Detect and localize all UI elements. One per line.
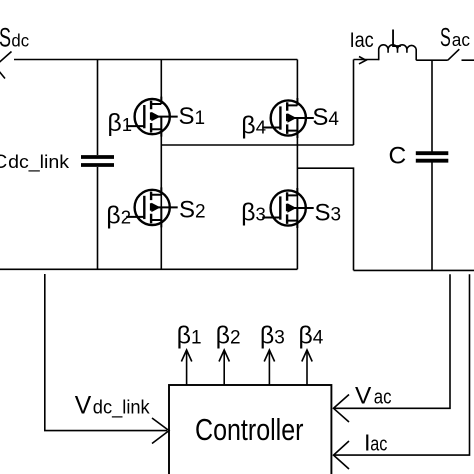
arrowhead beta2 [219,350,229,362]
wire beta2 output [223,350,225,385]
svg-text:ac: ac [452,29,470,50]
svg-text:S1: S1 [179,103,206,130]
wire bottom DC rail [0,268,297,270]
arrowhead beta4 [302,350,312,362]
switch Sac [448,49,474,60]
wire right leg upper (S4 drain) [296,60,298,106]
wire left leg mid (S1 source to S2 drain) [160,117,162,208]
svg-text:dc_link: dc_link [93,398,150,419]
svg-text:ac: ac [370,433,387,455]
wire left leg upper (S1 drain) [160,60,162,105]
svg-text:β4: β4 [298,322,323,350]
svg-text:S4: S4 [312,104,339,131]
transistor S3 [262,188,314,228]
wire Vdc_link sense [45,274,167,431]
wire right leg mid (S4 source to S3 drain) [296,118,298,208]
wire Cdc_link top lead [97,60,99,156]
svg-text:S: S [0,23,11,53]
wire AC bottom [354,269,474,271]
svg-text:Controller: Controller [195,413,304,447]
wire Cdc_link bottom lead [97,167,99,269]
arrowhead Vdc_link into controller [152,418,169,444]
arrowhead beta1 [181,350,191,362]
arrow Iac direction [359,57,366,64]
svg-text:Iac: Iac [350,29,374,52]
inductor L [379,45,417,60]
arrowhead Iac into controller [334,441,350,469]
wire beta4 output [306,350,308,385]
transistor S2 [126,187,178,227]
svg-text:β4: β4 [241,111,266,139]
svg-text:β3: β3 [260,322,285,350]
wire Iac sense tap [334,274,470,455]
arrowhead Vac into controller [334,395,350,423]
switch Sdc [0,52,12,79]
svg-text:S: S [440,22,451,52]
svg-text:ac: ac [374,386,392,408]
wire inductor to Sac [416,59,448,61]
wire left leg lower (S2 source) [160,207,162,269]
wire top DC rail [14,59,297,61]
capacitor Cdc_link [81,157,114,165]
svg-text:C: C [0,152,7,173]
svg-text:β2: β2 [106,202,131,230]
svg-text:β2: β2 [216,322,241,350]
svg-text:V: V [355,382,372,409]
wire beta1 output [186,350,188,385]
wire Vac sense tap [334,274,450,408]
wire right leg lower (S3 source) [296,208,298,269]
svg-text:L: L [391,25,402,53]
transistor S1 [126,97,178,137]
arrowhead beta3 [264,350,274,362]
transistor S4 [262,98,314,138]
wire bridge output B (S4/S3 junction down to AC bottom) [297,168,353,270]
controller box U1 [169,385,331,474]
svg-text:β1: β1 [107,109,132,137]
wire AC riser up [353,60,355,146]
svg-text:dc: dc [11,31,29,51]
svg-text:V: V [75,393,92,420]
wire bridge output A (S1/S2 junction to AC riser) [161,144,353,146]
svg-text:C: C [389,142,407,169]
wire AC top [354,59,379,61]
capacitor C [416,153,449,161]
svg-text:β3: β3 [241,199,266,227]
svg-text:dc_link: dc_link [8,151,70,173]
svg-text:β1: β1 [177,322,202,350]
wire capacitor C bottom lead [431,163,433,271]
wire capacitor C top lead [431,60,433,152]
svg-text:S2: S2 [179,196,206,223]
wire beta3 output [268,350,270,385]
svg-text:S3: S3 [315,200,342,227]
